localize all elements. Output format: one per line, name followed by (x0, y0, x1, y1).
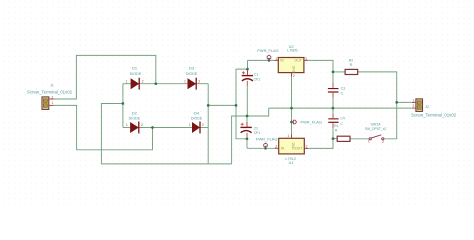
connector J2 (411, 99, 457, 118)
svg-text:SW1A: SW1A (371, 122, 382, 126)
wire J1.2 to bridge top (54, 55, 156, 99)
wire C2 top to gnd step (232, 108, 269, 164)
power flag at ground rail (292, 120, 322, 125)
svg-text:IN: IN (280, 59, 284, 63)
svg-text:J2: J2 (425, 105, 429, 109)
svg-text:D4: D4 (194, 111, 200, 116)
svg-text:1: 1 (276, 57, 278, 61)
svg-text:GND: GND (292, 66, 296, 74)
svg-text:1: 1 (412, 99, 414, 103)
svg-text:2: 2 (51, 95, 53, 99)
svg-text:2: 2 (202, 123, 204, 127)
capacitor C4 (328, 113, 345, 128)
wire U1 OUT up to R1 (308, 139, 337, 149)
wire diode bottom row (123, 127, 208, 129)
svg-text:3: 3 (306, 144, 308, 148)
wire bridge output to riser (208, 104, 236, 106)
svg-text:2: 2 (382, 140, 384, 144)
wire R1 to switch (350, 138, 369, 140)
wire +rail to U2 IN (248, 59, 275, 61)
svg-text:DIODE: DIODE (129, 117, 141, 121)
svg-text:IN: IN (281, 147, 285, 151)
capacitor C3 (328, 83, 345, 98)
svg-text:C3: C3 (341, 86, 346, 90)
diode D3 (184, 66, 200, 90)
svg-text:C: C (341, 92, 344, 96)
wire U2 GND to U1 GND (291, 77, 293, 135)
svg-text:R: R (335, 128, 338, 132)
svg-text:D2: D2 (132, 111, 138, 116)
wire D1-D2 anode tie (122, 84, 124, 128)
svg-text:C1: C1 (254, 73, 258, 77)
svg-text:1: 1 (126, 79, 128, 83)
svg-text:2: 2 (198, 79, 200, 83)
svg-text:R1: R1 (334, 124, 339, 128)
diode D1 (126, 66, 144, 90)
svg-text:SW_DPST_x2: SW_DPST_x2 (365, 127, 386, 131)
wire D3-D4 cathode tie (207, 84, 209, 164)
svg-text:D1: D1 (132, 66, 138, 71)
wire C1-C2 column (247, 69, 275, 148)
svg-text:L7805: L7805 (287, 49, 298, 53)
wire switch to J2 riser (384, 102, 397, 138)
svg-text:Screw_Terminal_01x02: Screw_Terminal_01x02 (411, 112, 457, 117)
svg-text:DIODE: DIODE (191, 117, 203, 121)
svg-text:1: 1 (189, 123, 191, 127)
svg-text:2: 2 (275, 144, 277, 148)
capacitor C1 (242, 71, 261, 81)
svg-text:CP1: CP1 (254, 77, 261, 81)
svg-text:D3: D3 (189, 66, 195, 71)
svg-text:C2: C2 (254, 126, 258, 130)
wire diode top row (123, 83, 208, 85)
connector J1 (27, 84, 73, 110)
resistor R1 (334, 124, 350, 141)
wire J1.1 to bridge bottom (54, 105, 153, 149)
svg-text:1: 1 (287, 134, 289, 138)
svg-text:2: 2 (142, 79, 144, 83)
diode D4 (189, 111, 204, 134)
svg-text:R2: R2 (349, 59, 354, 63)
svg-text:OUT: OUT (295, 147, 303, 151)
diode D2 (126, 111, 143, 134)
junction dots (122, 59, 399, 150)
wire ground rail (269, 107, 412, 109)
regulator U1 L7912 (275, 134, 309, 165)
svg-text:1: 1 (126, 123, 128, 127)
svg-text:3: 3 (305, 57, 307, 61)
svg-text:C: C (340, 122, 343, 126)
svg-text:DIODE: DIODE (186, 72, 198, 76)
svg-text:DIODE: DIODE (130, 72, 142, 76)
svg-text:1: 1 (368, 139, 370, 143)
svg-text:1: 1 (51, 101, 53, 105)
wire riser x235 (236, 60, 248, 138)
svg-text:1: 1 (184, 79, 186, 83)
svg-text:PWR_FLAG: PWR_FLAG (256, 137, 277, 142)
svg-text:2: 2 (293, 74, 295, 78)
svg-text:PWR_FLAG: PWR_FLAG (257, 48, 278, 53)
wire U2 OUT to R2/C3 (308, 60, 345, 72)
svg-text:J1: J1 (50, 84, 54, 88)
power flag at U2 input (257, 48, 278, 60)
svg-text:Screw_Terminal_01x02: Screw_Terminal_01x02 (27, 90, 73, 95)
wire anode tap to V- rail (101, 104, 231, 164)
wire C4 column (332, 108, 334, 139)
wire R2 to J2.1 (358, 72, 412, 103)
capacitor C2 (240, 123, 260, 135)
regulator U2 L7805 (274, 45, 308, 78)
svg-text:GND: GND (291, 143, 295, 151)
svg-text:CP1: CP1 (254, 131, 261, 135)
svg-text:2: 2 (141, 123, 143, 127)
resistor R2 (345, 59, 358, 75)
wire C3 column (332, 72, 334, 108)
switch SW1A (365, 122, 386, 144)
power flag at U1 input (256, 137, 277, 149)
svg-text:OUT: OUT (295, 59, 303, 63)
svg-text:PWR_FLAG: PWR_FLAG (301, 120, 322, 125)
svg-text:2: 2 (412, 104, 414, 108)
svg-text:C4: C4 (340, 117, 345, 121)
svg-text:R: R (350, 63, 353, 67)
svg-text:U1: U1 (289, 161, 294, 165)
